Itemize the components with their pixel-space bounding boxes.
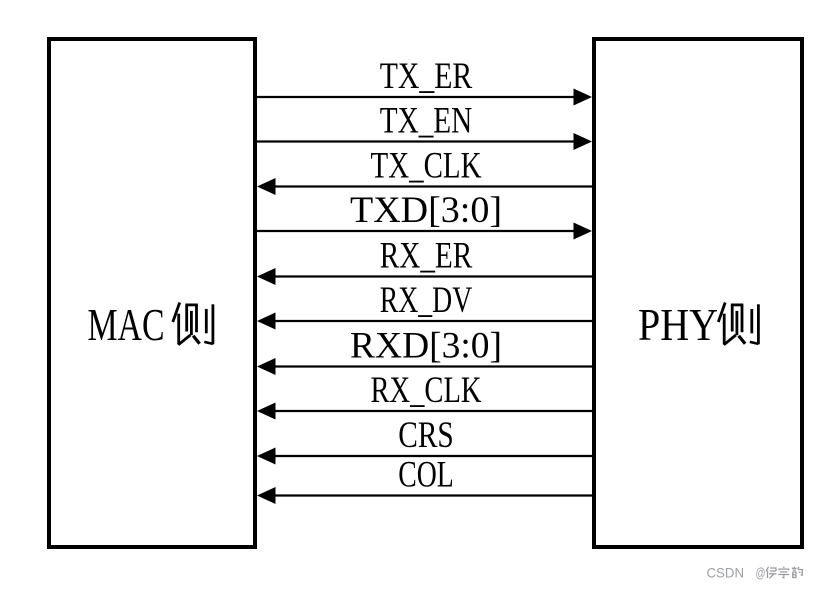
wire CRS (PHY to MAC)	[257, 448, 592, 465]
signal COL label	[398, 455, 454, 496]
glyph 侧 of PHY侧	[718, 303, 758, 345]
svg-text:TX_ER: TX_ER	[380, 56, 473, 97]
signal RXD[3:0] label	[350, 326, 502, 367]
svg-text:COL: COL	[398, 455, 454, 496]
wire RXD[3:0] (PHY to MAC)	[257, 358, 592, 375]
signal TX_EN label	[380, 101, 473, 142]
glyph 侧 of MAC侧	[173, 303, 213, 345]
watermark glyph 宇	[778, 567, 789, 578]
watermark glyph 伊	[766, 567, 777, 578]
svg-text:MAC: MAC	[88, 299, 165, 350]
wire TX_CLK (PHY to MAC)	[257, 178, 592, 195]
signal RX_CLK label	[371, 370, 482, 411]
svg-text:@: @	[756, 565, 766, 581]
wire TX_ER (MAC to PHY)	[257, 89, 592, 106]
wire RX_CLK (PHY to MAC)	[257, 403, 592, 420]
signal CRS label	[398, 415, 454, 456]
svg-text:RX_CLK: RX_CLK	[371, 370, 482, 411]
signal TXD[3:0] label	[350, 190, 502, 231]
signal RX_ER label	[380, 236, 473, 277]
svg-text:CSDN: CSDN	[707, 565, 745, 581]
signal TX_CLK label	[371, 146, 482, 187]
wire TX_EN (MAC to PHY)	[257, 133, 592, 150]
svg-text:RX_ER: RX_ER	[380, 236, 473, 277]
wire RX_DV (PHY to MAC)	[257, 313, 592, 330]
wire COL (PHY to MAC)	[257, 487, 592, 504]
svg-text:TX_EN: TX_EN	[380, 101, 473, 142]
wire TXD[3:0] (MAC to PHY)	[257, 223, 592, 240]
signal TX_ER label	[380, 56, 473, 97]
wire RX_ER (PHY to MAC)	[257, 268, 592, 285]
MAC block box	[49, 39, 255, 547]
svg-text:TXD[3:0]: TXD[3:0]	[350, 190, 502, 231]
svg-text:PHY: PHY	[638, 299, 718, 350]
signal RX_DV label	[380, 280, 473, 321]
PHY block box	[594, 39, 802, 547]
svg-text:CRS: CRS	[398, 415, 454, 456]
svg-text:TX_CLK: TX_CLK	[371, 146, 482, 187]
svg-text:RXD[3:0]: RXD[3:0]	[350, 326, 502, 367]
label PHY (text part)	[638, 299, 718, 350]
svg-text:RX_DV: RX_DV	[380, 280, 473, 321]
label MAC (text part)	[88, 299, 165, 350]
watermark glyph 韵	[792, 567, 802, 578]
watermark CSDN text	[707, 565, 766, 581]
